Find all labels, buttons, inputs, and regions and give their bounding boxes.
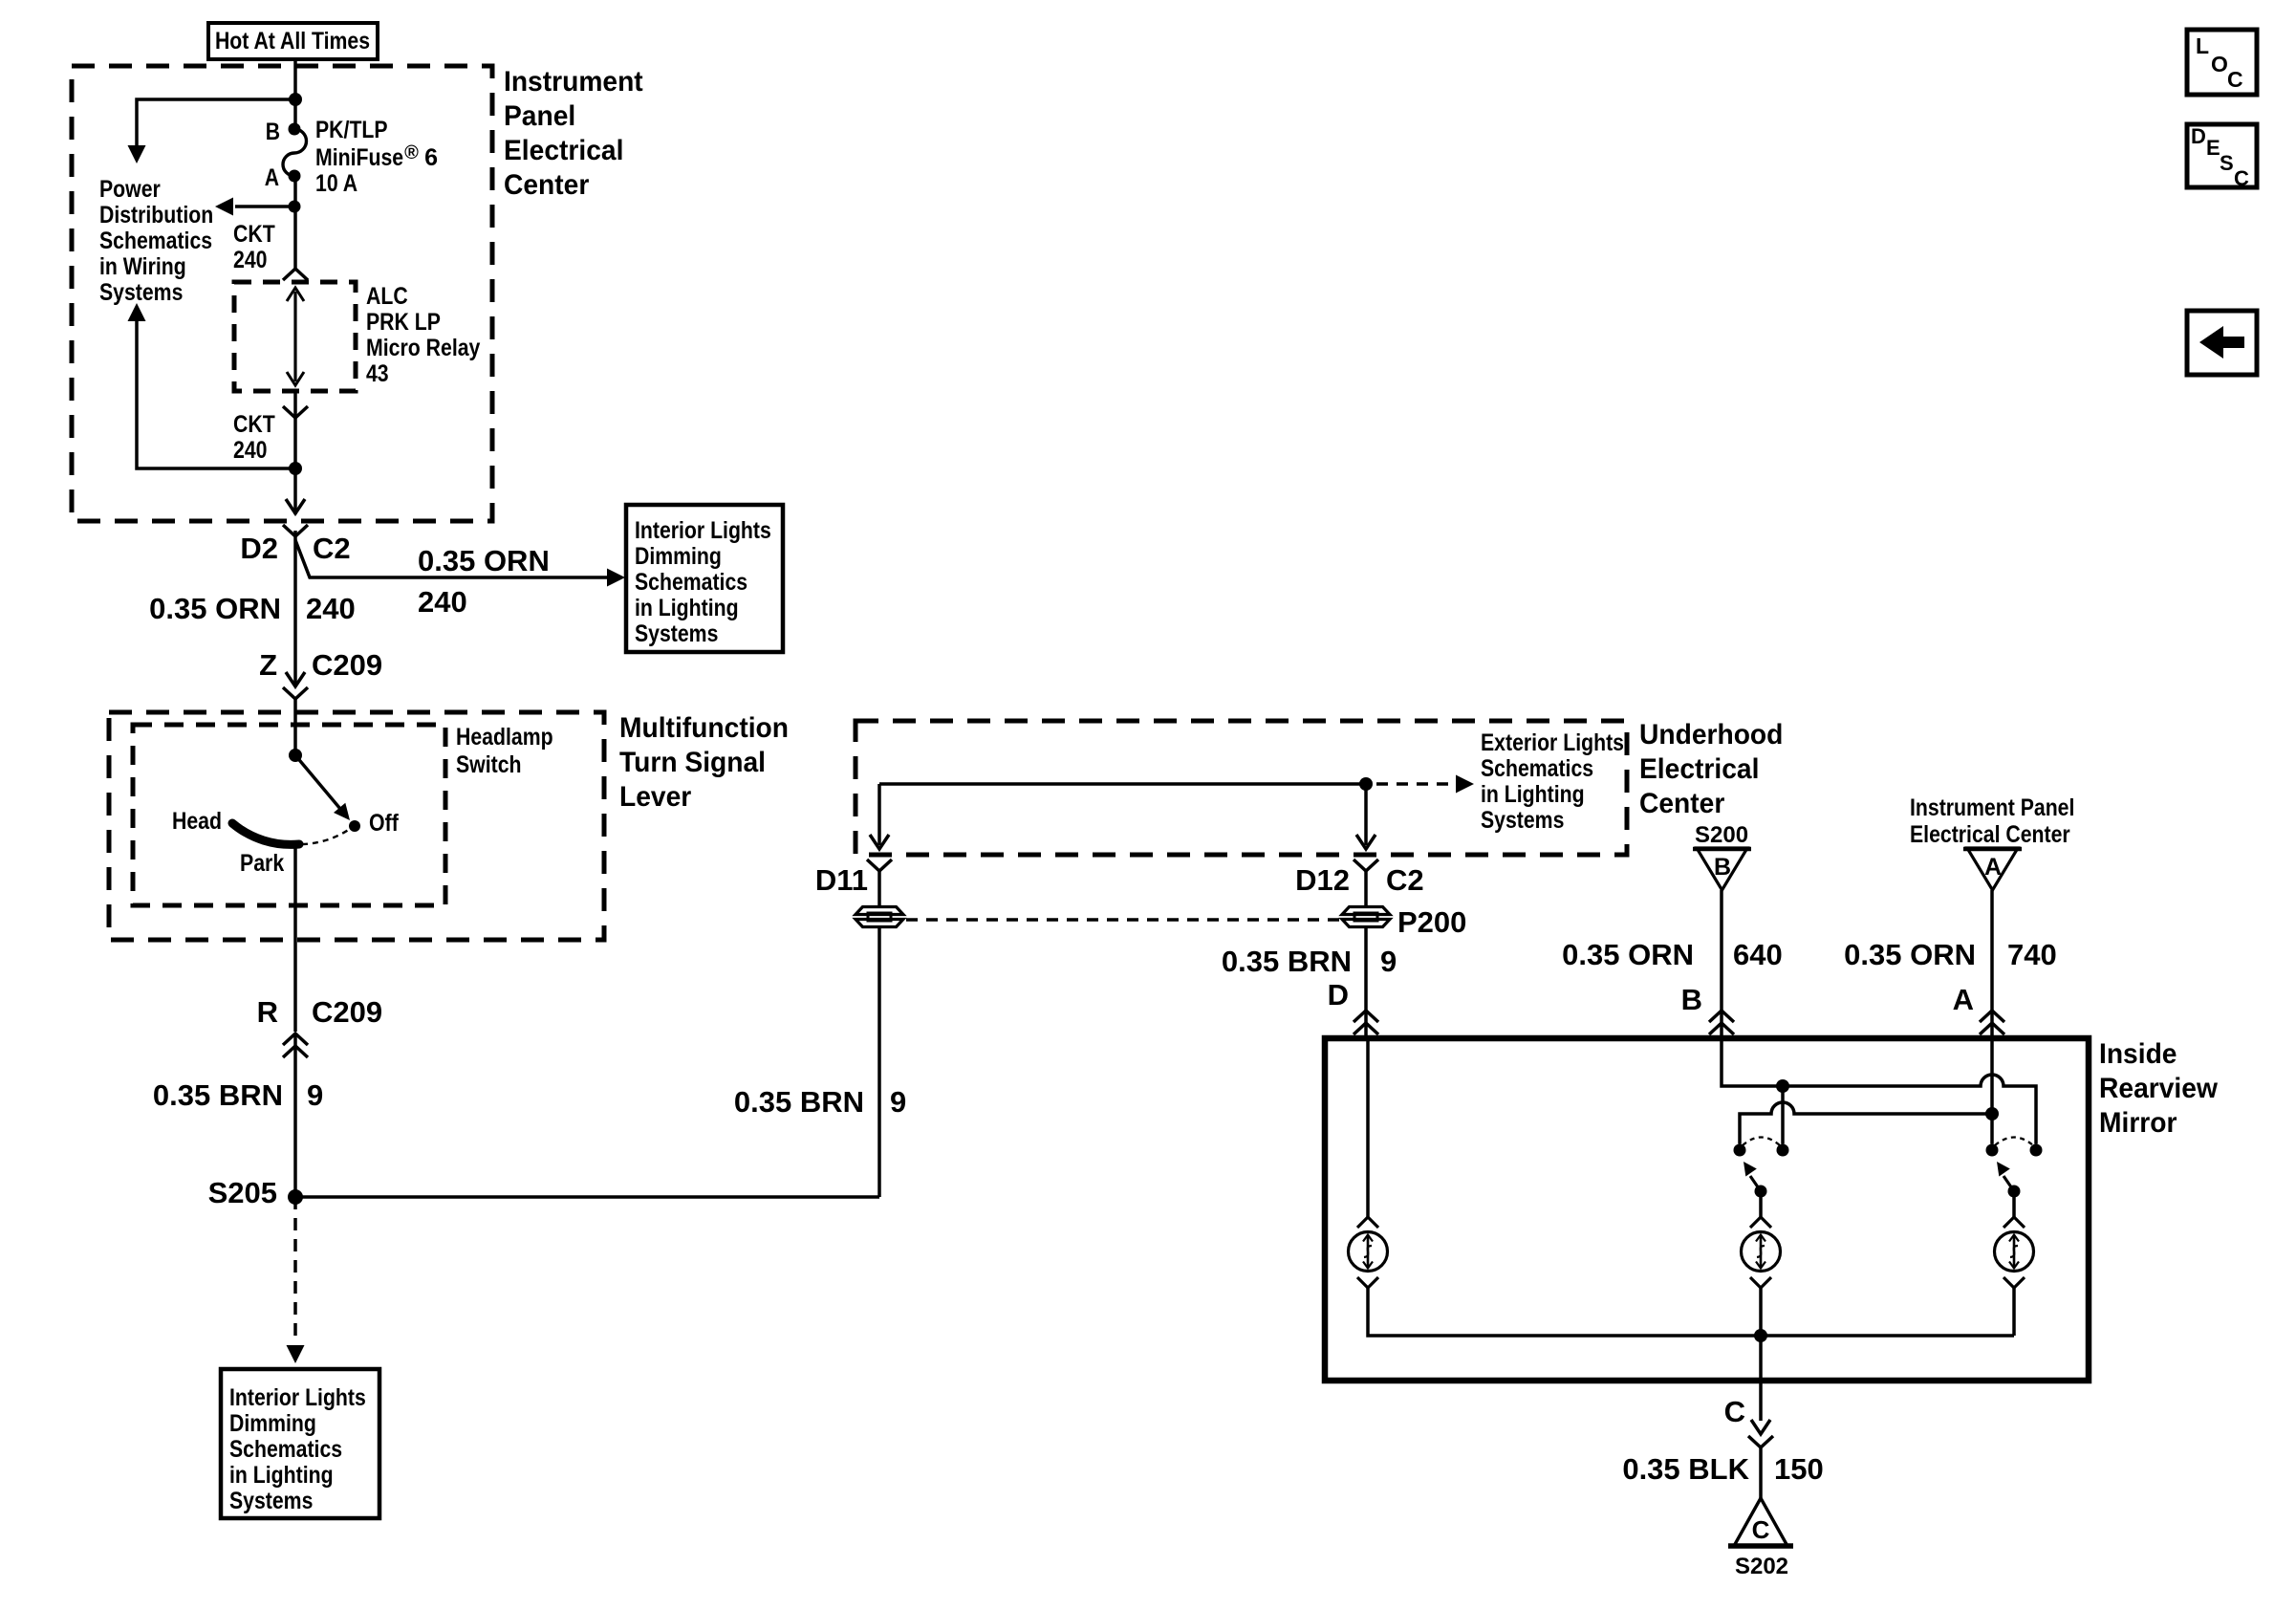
node junction on B bus: [1776, 1079, 1789, 1093]
node Interior Lights Dimming Schematics box lower: [221, 1369, 379, 1518]
wire pin C to ground: [1759, 1447, 1763, 1498]
wire fuse A down to CKT240 connector: [293, 176, 297, 269]
connector triangle B from S200: [1697, 848, 1747, 890]
node junction ground bus: [1754, 1329, 1767, 1342]
wire middle lamp to ground bus: [1759, 1288, 1763, 1336]
svg-text:C: C: [1724, 1395, 1745, 1428]
svg-text:Instrument: Instrument: [504, 66, 643, 98]
svg-text:Lever: Lever: [619, 781, 692, 813]
arrow left to Power Distribution Schematics: [215, 198, 233, 216]
svg-text:Schematics: Schematics: [99, 228, 212, 254]
svg-text:9: 9: [890, 1085, 906, 1119]
lamp right mirror bulb: [1995, 1232, 2034, 1272]
svg-text:CKT: CKT: [233, 221, 275, 248]
svg-text:740: 740: [2007, 938, 2057, 971]
connector chevron above left lamp: [1357, 1217, 1378, 1228]
svg-text:B: B: [1714, 854, 1731, 881]
wire D12 to inline connector: [1364, 871, 1368, 907]
wire C209 to S205: [293, 1033, 297, 1197]
wire ground bus inside mirror: [1368, 1288, 2014, 1336]
svg-text:C: C: [1752, 1515, 1770, 1544]
wire stub left from junction: [235, 205, 295, 208]
svg-text:0.35 ORN: 0.35 ORN: [418, 544, 550, 577]
node Instrument Panel Electrical Center dashed box: [72, 66, 492, 521]
svg-text:CKT: CKT: [233, 411, 275, 438]
connector double chevron pin B: [1709, 1011, 1734, 1022]
wire S200 down to mirror pin B: [1720, 890, 1723, 1038]
svg-text:Interior Lights: Interior Lights: [229, 1384, 366, 1411]
svg-text:R: R: [257, 995, 278, 1029]
svg-text:D2: D2: [240, 532, 278, 565]
connector chevron above middle lamp: [1750, 1217, 1771, 1228]
switch middle contacts: [1734, 1144, 1746, 1157]
svg-text:S200: S200: [1695, 822, 1748, 848]
svg-text:C209: C209: [312, 995, 382, 1029]
svg-text:0.35 ORN: 0.35 ORN: [149, 592, 281, 625]
node DESC legend box: [2187, 124, 2257, 187]
svg-text:PK/TLP: PK/TLP: [315, 117, 388, 143]
svg-text:240: 240: [233, 437, 268, 464]
svg-text:Hot At All Times: Hot At All Times: [215, 28, 370, 54]
splice S205: [288, 1189, 303, 1205]
svg-text:A: A: [265, 164, 279, 191]
switch dashed travel arc Park to Off: [302, 829, 350, 844]
connector chevron below left lamp: [1357, 1277, 1378, 1288]
wire right lamp down to ground bus corner: [2012, 1288, 2016, 1336]
wire right switch to lamp: [2012, 1191, 2016, 1217]
node Underhood Electrical Center dashed box: [856, 721, 1627, 855]
svg-text:C209: C209: [312, 648, 382, 682]
node Headlamp Switch dashed box: [133, 725, 445, 905]
wire pin D down to left lamp: [1366, 1038, 1370, 1217]
svg-text:0.35 BLK: 0.35 BLK: [1622, 1452, 1749, 1486]
svg-text:0.35 ORN: 0.35 ORN: [1562, 938, 1694, 971]
svg-text:Electrical: Electrical: [504, 135, 623, 166]
svg-text:Distribution: Distribution: [99, 202, 213, 228]
svg-text:S: S: [2220, 151, 2234, 175]
relay contact element: [293, 292, 296, 381]
connector chevron above right lamp: [2004, 1217, 2025, 1228]
svg-text:ALC: ALC: [366, 283, 408, 310]
node Interior Lights Dimming Schematics box upper: [626, 505, 783, 652]
node back-arrow legend box: [2187, 311, 2257, 375]
svg-text:D: D: [1328, 978, 1349, 1012]
switch S headlamp pivot node: [289, 749, 302, 762]
svg-text:Instrument Panel: Instrument Panel: [1910, 794, 2074, 821]
svg-text:Electrical Center: Electrical Center: [1910, 821, 2070, 848]
svg-text:Schematics: Schematics: [229, 1436, 342, 1463]
svg-text:C: C: [2227, 67, 2243, 92]
svg-text:D11: D11: [815, 863, 868, 897]
arrow right into Interior Lights Dimming box: [607, 569, 625, 587]
wire feed from Hot At All Times down to fuse terminal B: [293, 59, 297, 129]
svg-text:Micro Relay: Micro Relay: [366, 335, 480, 361]
wire D11 leg down and left to S205: [877, 926, 881, 1197]
lamp left mirror bulb: [1349, 1232, 1388, 1272]
connector chevron D2 side: [283, 525, 308, 536]
switch right pivot and arm: [2008, 1186, 2021, 1198]
svg-text:6: 6: [424, 144, 438, 171]
svg-text:Multifunction: Multifunction: [619, 712, 789, 744]
arrow down to Power Distribution Schematics: [128, 145, 146, 163]
wire A branch left with hop to middle switch left contact: [1740, 1102, 1992, 1144]
wire ground lead out of mirror box: [1759, 1336, 1763, 1421]
connector D11 exit arrow: [870, 835, 889, 849]
connector C209 arrow down: [286, 672, 305, 686]
wire pin B inside mirror with hop over pin A wire: [1722, 1038, 2036, 1144]
wire feedback branch left and up: [137, 321, 295, 468]
connector chevron below relay: [283, 406, 308, 418]
node LOC legend box: [2187, 30, 2257, 95]
wire C209 to headlamp switch: [293, 699, 297, 755]
svg-text:Center: Center: [1639, 788, 1725, 819]
svg-text:Turn Signal: Turn Signal: [619, 747, 766, 778]
node junction for feedback branch: [289, 462, 302, 475]
connector chevron below D11: [867, 859, 892, 871]
svg-text:S205: S205: [208, 1176, 277, 1209]
svg-text:D: D: [2191, 124, 2206, 148]
svg-text:E: E: [2206, 136, 2220, 160]
svg-text:150: 150: [1774, 1452, 1824, 1486]
svg-text:S202: S202: [1735, 1554, 1788, 1579]
svg-text:240: 240: [233, 247, 268, 273]
svg-text:Interior Lights: Interior Lights: [635, 517, 771, 544]
connector pin C exit arrow: [1751, 1420, 1770, 1434]
node Inside Rearview Mirror box: [1325, 1038, 2089, 1381]
svg-text:Electrical: Electrical: [1639, 753, 1759, 785]
svg-text:0.35 BRN: 0.35 BRN: [734, 1085, 864, 1119]
arrow right to Exterior Lights Schematics: [1456, 775, 1474, 794]
svg-text:43: 43: [366, 360, 389, 387]
svg-text:Center: Center: [504, 169, 590, 201]
switch middle dashed arc: [1743, 1138, 1780, 1146]
switch right dashed arc: [1995, 1138, 2033, 1146]
arrow down into Interior Lights Dimming box lower: [287, 1345, 305, 1363]
node Off contact: [349, 820, 360, 832]
wire S205 to inside rearview mirror feed: [295, 1195, 879, 1199]
wire dashed to Exterior Lights Schematics: [1376, 782, 1457, 786]
svg-text:in Lighting: in Lighting: [1481, 781, 1585, 808]
svg-text:Schematics: Schematics: [1481, 755, 1593, 782]
svg-text:Systems: Systems: [229, 1488, 313, 1514]
svg-text:Systems: Systems: [635, 620, 718, 647]
svg-text:Switch: Switch: [456, 751, 522, 778]
svg-text:Off: Off: [369, 810, 399, 837]
wire pin A inside mirror: [1990, 1038, 1994, 1144]
svg-text:0.35 BRN: 0.35 BRN: [153, 1078, 283, 1112]
wire IPEC down to mirror pin A: [1990, 890, 1994, 1038]
svg-text:A: A: [1984, 854, 2002, 881]
connector inline P200: [1342, 907, 1390, 915]
connector C209 double chevron: [283, 1033, 308, 1045]
svg-text:Inside: Inside: [2099, 1038, 2177, 1070]
svg-text:240: 240: [418, 585, 467, 619]
wire right leg down to D12 exit: [1364, 784, 1368, 845]
svg-text:Head: Head: [172, 808, 222, 835]
svg-text:Rearview: Rearview: [2099, 1073, 2219, 1104]
svg-text:C2: C2: [313, 532, 351, 565]
svg-text:Systems: Systems: [99, 279, 183, 306]
fuse F6 PK/TLP MiniFuse 6 10A: [289, 123, 301, 136]
svg-text:0.35 ORN: 0.35 ORN: [1844, 938, 1976, 971]
wire left leg down to D11 exit: [877, 784, 881, 845]
svg-text:Panel: Panel: [504, 100, 575, 132]
svg-text:Underhood: Underhood: [1639, 719, 1783, 751]
svg-text:in Wiring: in Wiring: [99, 253, 186, 280]
svg-text:in Lighting: in Lighting: [229, 1462, 334, 1489]
wire junction down to middle switch right contact: [1781, 1086, 1785, 1144]
connector C2 exit arrow at IPEC box edge: [286, 499, 305, 513]
node junction to exterior lights: [1359, 777, 1373, 791]
arrow up to Systems text: [128, 303, 146, 321]
svg-text:Z: Z: [259, 648, 277, 682]
svg-text:L: L: [2196, 33, 2209, 58]
svg-text:C: C: [2234, 166, 2249, 190]
svg-text:Exterior Lights: Exterior Lights: [1481, 729, 1624, 756]
wire branch to Interior Lights Dimming via 0.35 ORN 240: [295, 540, 608, 577]
connector inline D11 half of P200: [856, 907, 903, 915]
svg-text:Dimming: Dimming: [229, 1410, 316, 1437]
connector chevron below pin C: [1748, 1436, 1773, 1447]
wire branch left to Power Distribution arrow: [137, 99, 295, 145]
svg-text:0.35 BRN: 0.35 BRN: [1222, 945, 1352, 978]
svg-text:C2: C2: [1386, 863, 1424, 897]
svg-text:O: O: [2211, 52, 2228, 76]
switch middle pivot and arm: [1755, 1186, 1767, 1198]
svg-text:640: 640: [1733, 938, 1783, 971]
svg-text:Park: Park: [240, 850, 284, 877]
connector chevron below C209: [283, 687, 308, 699]
node Hot At All Times box: [208, 23, 378, 59]
svg-text:Power: Power: [99, 176, 161, 203]
connector chevron below right lamp: [2004, 1277, 2025, 1288]
svg-text:Systems: Systems: [1481, 807, 1564, 834]
svg-text:PRK LP: PRK LP: [366, 309, 441, 336]
relay ALC PRK LP Micro Relay 43 dashed box: [234, 282, 356, 391]
svg-text:Dimming: Dimming: [635, 543, 722, 570]
connector chevron below D12: [1354, 859, 1378, 871]
svg-text:A: A: [1953, 983, 1974, 1016]
wire from Park contact down to C209: [293, 845, 297, 1032]
svg-text:B: B: [266, 119, 280, 145]
svg-text:P200: P200: [1397, 905, 1466, 939]
svg-text:Headlamp: Headlamp: [456, 724, 553, 751]
switch arm arrow toward Off: [295, 755, 340, 809]
wire dashed S205 down to Interior Lights Dimming: [293, 1197, 297, 1338]
node junction on A wire: [1985, 1107, 1999, 1120]
svg-text:240: 240: [306, 592, 356, 625]
wire dashed between P200 halves: [906, 918, 1340, 922]
connector triangle A from IPEC: [1967, 848, 2018, 890]
wire P200 down to mirror pin D: [1364, 926, 1368, 1038]
svg-text:D12: D12: [1295, 863, 1350, 897]
connector chevron above relay: [283, 269, 308, 280]
svg-text:MiniFuse: MiniFuse: [315, 144, 403, 171]
svg-text:Mirror: Mirror: [2099, 1107, 2177, 1139]
switch wiper thick arc Head-Park: [232, 823, 299, 844]
wire main feed D2 to C209: [293, 531, 297, 685]
connector D12 exit arrow: [1356, 835, 1375, 849]
switch right contacts: [1986, 1144, 1999, 1157]
lamp middle mirror bulb: [1742, 1232, 1781, 1272]
ground triangle S202: [1734, 1498, 1787, 1546]
node junction above fuse: [289, 93, 302, 106]
svg-text:9: 9: [1380, 945, 1397, 978]
wire middle switch to lamp: [1759, 1191, 1763, 1217]
wire D11 to inline connector: [877, 871, 881, 907]
connector double chevron pin A: [1980, 1011, 2004, 1022]
wire relay output down to box exit: [293, 391, 297, 514]
svg-text:10 A: 10 A: [315, 170, 357, 197]
svg-text:®: ®: [404, 142, 419, 163]
connector chevron below middle lamp: [1750, 1277, 1771, 1288]
svg-text:Schematics: Schematics: [635, 569, 747, 596]
connector double chevron pin D: [1354, 1011, 1378, 1022]
node Multifunction Turn Signal Lever dashed box: [109, 712, 604, 940]
svg-text:B: B: [1681, 983, 1702, 1016]
svg-text:in Lighting: in Lighting: [635, 595, 739, 621]
node junction below fuse: [289, 201, 301, 213]
svg-text:9: 9: [307, 1078, 323, 1112]
wire bus inside underhood box: [879, 782, 1366, 786]
